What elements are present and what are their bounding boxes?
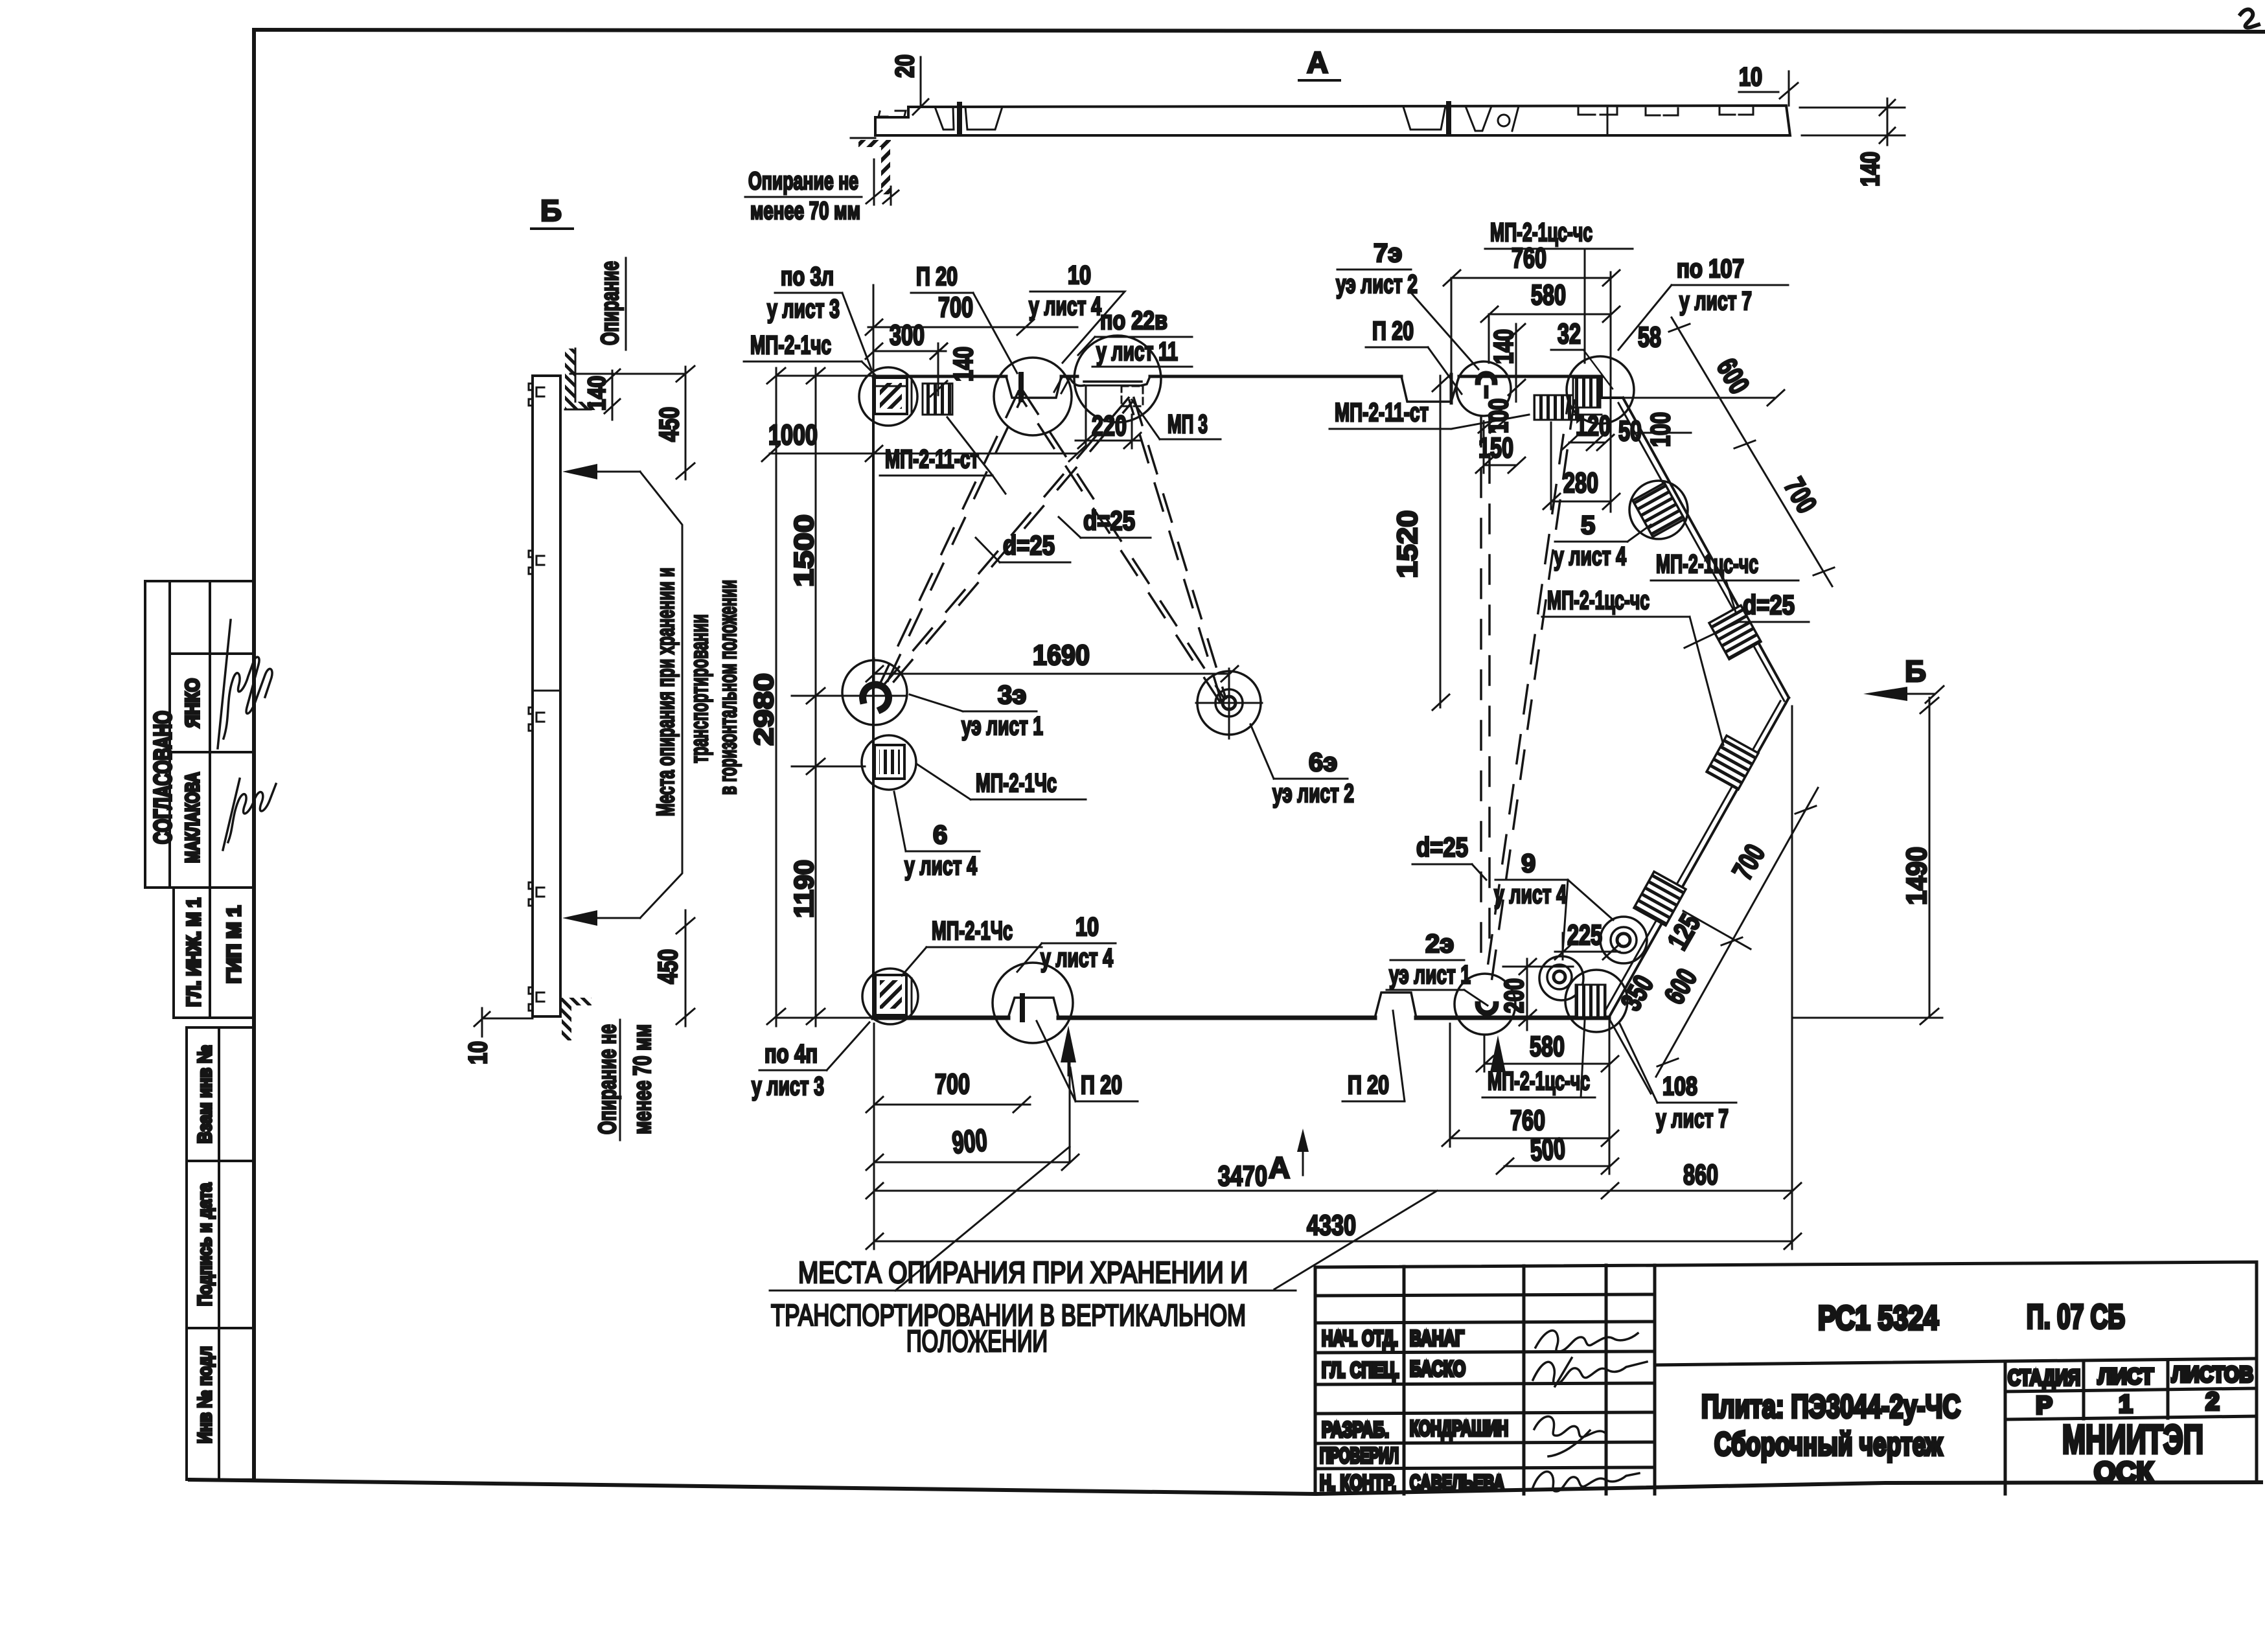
- svg-text:у лист 11: у лист 11: [1096, 338, 1178, 366]
- support line left: [851, 137, 875, 139]
- svg-text:менее 70 мм: менее 70 мм: [750, 198, 860, 225]
- svg-text:450: 450: [654, 407, 684, 442]
- SECTION A: [745, 45, 1905, 225]
- svg-text:100: 100: [1645, 412, 1675, 447]
- svg-text:менее 70 мм: менее 70 мм: [629, 1024, 656, 1134]
- embed on bottom diagonal 2: [1634, 871, 1686, 925]
- svg-text:у лист 3: у лист 3: [767, 295, 840, 323]
- PLAN DASHED: [880, 390, 1574, 982]
- svg-text:1520: 1520: [1392, 511, 1423, 579]
- plate top edge: [873, 375, 1006, 378]
- frame top border: [254, 30, 2265, 32]
- extension lines: [776, 375, 873, 377]
- П20 notch bottom: [1008, 998, 1059, 1018]
- svg-text:200: 200: [1499, 978, 1529, 1013]
- svg-text:РС1 5324: РС1 5324: [1818, 1300, 1938, 1337]
- svg-text:САВЕЛЬЕВА: САВЕЛЬЕВА: [1410, 1471, 1504, 1495]
- svg-text:10: 10: [464, 1041, 492, 1064]
- svg-text:А: А: [1269, 1151, 1290, 1184]
- svg-text:58: 58: [1638, 321, 1661, 353]
- dim 700 bottom: [874, 1104, 1030, 1106]
- dim 100 diag: [1626, 397, 1684, 399]
- dim 150: [1484, 465, 1516, 466]
- frame bottom border: [190, 1480, 2261, 1494]
- PLAN: [842, 336, 1789, 1043]
- signature Савельева: [1533, 1472, 1639, 1491]
- svg-text:1190: 1190: [788, 860, 819, 918]
- TITLEBLOCK: [1315, 1262, 2257, 1495]
- svg-text:П 20: П 20: [1372, 317, 1414, 345]
- corner embed bottom-right: [1576, 985, 1605, 1017]
- svg-text:ПРОВЕРИЛ: ПРОВЕРИЛ: [1320, 1443, 1399, 1467]
- svg-text:220: 220: [1092, 410, 1127, 442]
- svg-text:1690: 1690: [1033, 639, 1090, 671]
- diag dim line 700 600 bottom: [1656, 788, 1818, 1077]
- hole circle: [1498, 115, 1510, 126]
- svg-text:БАСКО: БАСКО: [1410, 1357, 1466, 1381]
- svg-text:1: 1: [2119, 1391, 2132, 1418]
- svg-text:Плита: ПЭ3044-2у-ЧС: Плита: ПЭ3044-2у-ЧС: [1701, 1388, 1960, 1425]
- svg-text:ЛИСТ: ЛИСТ: [2098, 1364, 2154, 1389]
- svg-text:Опирание: Опирание: [597, 261, 624, 345]
- svg-text:П 20: П 20: [1081, 1071, 1122, 1099]
- embed МП-2-1Чс mid-left: [875, 745, 904, 779]
- svg-text:d=25: d=25: [1083, 505, 1135, 536]
- PLAN LABELS: [744, 218, 1809, 1358]
- embed МП-2-11-ст top-left: [923, 384, 952, 415]
- svg-text:140: 140: [1488, 329, 1519, 364]
- edge tabs: [529, 384, 533, 406]
- title block outer border: [1315, 1262, 2257, 1494]
- detail circle 3э: [842, 660, 907, 725]
- П20 notch top-left: [1006, 376, 1061, 398]
- dim 225: [1555, 951, 1620, 953]
- svg-text:4330: 4330: [1307, 1210, 1356, 1241]
- svg-text:3э: 3э: [998, 681, 1026, 709]
- notch П20 left: [935, 107, 954, 130]
- svg-text:2: 2: [2205, 1388, 2219, 1416]
- plate apex: [1786, 698, 1789, 704]
- handwritten sheet number 2: [2240, 10, 2259, 28]
- embed on bottom diagonal 1: [1707, 735, 1758, 789]
- svg-text:МП-2-1чс: МП-2-1чс: [750, 331, 831, 360]
- loop 3э: [863, 685, 889, 709]
- signature Кондрашин: [1534, 1416, 1605, 1437]
- embed marks on top: [1578, 108, 1617, 115]
- frame left border: [252, 30, 256, 1480]
- svg-text:ГЛ. СПЕЦ.: ГЛ. СПЕЦ.: [1322, 1358, 1399, 1382]
- top-left corner embed МП-2-1чс: [875, 378, 907, 414]
- svg-text:Подпись и дата: Подпись и дата: [194, 1183, 216, 1306]
- sling line по22в to 3э: [881, 398, 1129, 688]
- diag dim line 600 700 top: [1672, 317, 1832, 586]
- centerlines 3э: [873, 658, 875, 688]
- approval stamp lower block: [174, 888, 253, 1018]
- svg-text:ЛИСТОВ: ЛИСТОВ: [2172, 1362, 2253, 1387]
- svg-text:А: А: [1307, 45, 1328, 79]
- corner ext lines 107: [1623, 397, 1775, 399]
- svg-text:по 4п: по 4п: [765, 1040, 818, 1068]
- slab joint line: [1607, 106, 1609, 135]
- leader to note: [640, 472, 682, 918]
- lifting loop 2э: [1478, 1004, 1496, 1013]
- svg-text:Н. КОНТР.: Н. КОНТР.: [1320, 1471, 1396, 1495]
- approval stamp table: [145, 581, 253, 888]
- plate right upper diagonal edge: [1623, 398, 1789, 698]
- embed on top diagonal 1: [1633, 483, 1684, 536]
- detail circle 10 bottom: [993, 963, 1073, 1043]
- support hatch horizontal: [858, 140, 891, 147]
- svg-text:6: 6: [933, 821, 947, 849]
- detail circle 2э: [1454, 974, 1515, 1035]
- П20 joint bar: [957, 104, 962, 132]
- svg-text:РАЗРАБ.: РАЗРАБ.: [1322, 1417, 1389, 1441]
- svg-text:108: 108: [1662, 1072, 1697, 1101]
- dim 1520: [1440, 376, 1442, 707]
- dim 125: [1683, 911, 1751, 949]
- svg-text:ЯНКО: ЯНКО: [182, 678, 203, 728]
- SECTION B: [464, 194, 907, 1140]
- svg-text:Инв № подл: Инв № подл: [194, 1346, 216, 1443]
- svg-text:9: 9: [1521, 849, 1535, 878]
- dim 1000: [770, 453, 1077, 455]
- svg-text:140: 140: [1856, 152, 1885, 187]
- svg-text:20: 20: [891, 54, 919, 78]
- svg-text:Опирание не: Опирание не: [594, 1024, 621, 1134]
- svg-text:МЕСТА ОПИРАНИЯ ПРИ ХРАНЕНИ: МЕСТА ОПИРАНИЯ ПРИ ХРАНЕНИИ И: [798, 1256, 1248, 1289]
- ext corner diag: [1609, 1018, 1651, 1094]
- embed on top diagonal 2: [1709, 605, 1761, 659]
- svg-text:у лист 7: у лист 7: [1679, 287, 1752, 315]
- svg-text:у лист 4: у лист 4: [1041, 944, 1114, 972]
- svg-text:Опирание не: Опирание не: [748, 168, 858, 195]
- corner 107 embed: [1573, 378, 1600, 407]
- svg-text:МАКЛАКОВА: МАКЛАКОВА: [182, 772, 203, 863]
- lower stamp column: [187, 1027, 253, 1480]
- svg-text:КОНДРАШИН: КОНДРАШИН: [1410, 1416, 1508, 1440]
- svg-text:МП-2-11-ст: МП-2-11-ст: [885, 445, 979, 474]
- svg-text:транспортировании: транспортировании: [686, 614, 713, 763]
- svg-text:d=25: d=25: [1003, 530, 1055, 560]
- detail circle 9: [1539, 956, 1583, 1000]
- svg-text:СОГЛАСОВАНО: СОГЛАСОВАНО: [150, 711, 177, 844]
- signature table verticals: [1403, 1267, 1406, 1494]
- dim line 1500 1190: [815, 368, 817, 1026]
- svg-text:760: 760: [1510, 1105, 1545, 1136]
- svg-text:3470: 3470: [1218, 1160, 1267, 1192]
- detail circle top-left: [859, 367, 917, 426]
- svg-text:у лист 7: у лист 7: [1656, 1105, 1729, 1133]
- bottom-left corner embed: [875, 975, 906, 1015]
- svg-text:у лист 4: у лист 4: [904, 852, 978, 880]
- note underline: [770, 1290, 1296, 1292]
- dim 300: [873, 350, 946, 352]
- svg-text:580: 580: [1530, 1031, 1565, 1062]
- svg-text:860: 860: [1683, 1159, 1718, 1191]
- sling line top notch to 6э: [1022, 390, 1223, 697]
- svg-text:ВАНАГ: ВАНАГ: [1410, 1326, 1464, 1350]
- ext apex down: [1791, 706, 1793, 1249]
- dim 580 top: [1489, 314, 1611, 315]
- svg-text:d=25: d=25: [1416, 832, 1468, 862]
- detail circle 6: [862, 735, 916, 790]
- dim 450 top: [685, 367, 687, 479]
- svg-text:МП-2-1Чс: МП-2-1Чс: [976, 769, 1057, 797]
- sling line по22в to 6э: [1134, 398, 1226, 698]
- slab section outline: [533, 376, 560, 1016]
- svg-text:МП-2-1цс-чс: МП-2-1цс-чс: [1490, 218, 1592, 247]
- upper ring: [1611, 927, 1637, 953]
- svg-text:МП-2-1цс-чс: МП-2-1цс-чс: [1656, 550, 1758, 579]
- по 22в edge profile: [1069, 376, 1084, 385]
- svg-text:Сборочный чертеж: Сборочный чертеж: [1714, 1426, 1942, 1462]
- svg-text:225: 225: [1567, 919, 1602, 951]
- dim 580 bottom: [1484, 1063, 1609, 1065]
- svg-text:10: 10: [1068, 261, 1091, 290]
- svg-text:2980: 2980: [748, 673, 779, 746]
- support hatch top: [565, 349, 575, 402]
- svg-text:140: 140: [948, 347, 978, 382]
- dim 200: [1526, 959, 1528, 1030]
- svg-text:450: 450: [652, 949, 683, 984]
- sling diagonal right: [1491, 400, 1574, 982]
- svg-text:Б: Б: [540, 194, 562, 227]
- svg-text:ОСК: ОСК: [2094, 1456, 2154, 1488]
- lifting hole marks 7э: [1466, 106, 1491, 131]
- svg-text:ГИП М 1: ГИП М 1: [224, 906, 245, 983]
- svg-text:1500: 1500: [788, 514, 819, 587]
- detail circle 7э: [1456, 361, 1511, 416]
- svg-text:МП-2-1Чс: МП-2-1Чс: [932, 917, 1013, 945]
- svg-text:ПОЛОЖЕНИИ: ПОЛОЖЕНИИ: [906, 1324, 1048, 1358]
- svg-text:МНИИТЭП: МНИИТЭП: [2062, 1417, 2203, 1462]
- detail circle 5: [1629, 481, 1688, 539]
- svg-text:МП-2-1цс-чс: МП-2-1цс-чс: [1547, 586, 1650, 615]
- doc number divider: [1655, 1359, 2257, 1365]
- left recess mark: [879, 111, 888, 117]
- svg-text:6э: 6э: [1309, 748, 1337, 777]
- dim 1490: [1929, 698, 1931, 1018]
- notch П20 right: [1403, 106, 1445, 130]
- svg-text:МП-2-11-ст: МП-2-11-ст: [1335, 398, 1429, 427]
- signature Ванаг: [1535, 1331, 1638, 1351]
- svg-text:П 20: П 20: [1348, 1071, 1389, 1099]
- detail circle по22в: [1074, 336, 1161, 422]
- svg-text:10: 10: [1739, 63, 1762, 91]
- svg-text:по 22в: по 22в: [1100, 306, 1167, 335]
- svg-text:НАЧ. ОТД.: НАЧ. ОТД.: [1322, 1326, 1398, 1350]
- embed МП-2-11-ст top-right: [1534, 395, 1578, 420]
- svg-text:5: 5: [1581, 511, 1595, 540]
- slab profile outline: [875, 106, 1790, 135]
- svg-text:d=25: d=25: [1743, 590, 1795, 620]
- dim 220: [1075, 440, 1142, 442]
- svg-text:300: 300: [890, 319, 925, 351]
- dim 700 top: [868, 327, 1077, 328]
- svg-text:50: 50: [1618, 415, 1642, 447]
- mid ring 9: [1547, 965, 1572, 989]
- STAMPS: [145, 581, 276, 1480]
- transport arrow bottom-left: [1061, 1026, 1076, 1062]
- dim 140 right: [1800, 107, 1905, 109]
- dim 450 bottom: [685, 910, 687, 1026]
- signature table row lines: [1315, 1294, 1655, 1296]
- support hatch vertical: [881, 147, 890, 194]
- sling vertical pair: [1480, 418, 1482, 959]
- detail circle upper ring: [1600, 917, 1647, 963]
- sling line top notch to 3э: [880, 391, 1018, 684]
- svg-text:П. 07 СБ: П. 07 СБ: [2027, 1298, 2125, 1336]
- plate top-right step: [1602, 376, 1623, 398]
- signature Баско: [1533, 1362, 1647, 1384]
- dim 1690: [874, 673, 1229, 675]
- notch bottom-right: [1375, 992, 1416, 1018]
- svg-text:по 3л: по 3л: [781, 262, 834, 291]
- svg-text:у лист 3: у лист 3: [752, 1072, 824, 1101]
- dim 760 bottom: [1450, 1138, 1609, 1140]
- svg-text:1000: 1000: [768, 419, 818, 451]
- dim 10 bottom: [482, 1018, 533, 1020]
- svg-text:760: 760: [1512, 242, 1546, 274]
- svg-text:у лист 4: у лист 4: [1494, 880, 1567, 909]
- transport arrow top: [562, 464, 597, 479]
- detail circle corner: [1565, 970, 1627, 1032]
- signature scribble 1: [224, 657, 272, 739]
- svg-text:120: 120: [1576, 410, 1611, 442]
- ring 6э: [1215, 689, 1243, 717]
- svg-text:уэ лист 2: уэ лист 2: [1272, 779, 1354, 808]
- svg-text:уэ лист 1: уэ лист 1: [1389, 961, 1471, 989]
- dim 2980: [776, 368, 777, 1026]
- ext left edge up: [873, 285, 875, 374]
- П20 notch top-right: [1401, 376, 1459, 402]
- dim 3470 860: [874, 1190, 1792, 1192]
- note leader right: [1274, 1191, 1437, 1289]
- svg-text:у лист 4: у лист 4: [1554, 542, 1627, 571]
- svg-text:580: 580: [1531, 279, 1566, 311]
- embed МП3 dashed: [1121, 386, 1143, 406]
- joint bar: [1018, 374, 1024, 400]
- svg-text:7э: 7э: [1374, 239, 1402, 268]
- svg-text:в горизонтальном положении: в горизонтальном положении: [715, 580, 742, 795]
- svg-text:32: 32: [1558, 318, 1581, 350]
- svg-text:у лист 4: у лист 4: [1029, 292, 1102, 321]
- plate bottom edge: [873, 1016, 1008, 1020]
- dim 500 bottom: [1504, 1165, 1609, 1167]
- plate right lower diagonal edge: [1609, 704, 1786, 1018]
- dim 140 7э: [1515, 324, 1517, 402]
- svg-text:по 107: по 107: [1677, 255, 1744, 283]
- dim 140 top-left: [937, 343, 939, 395]
- inner C marks: [536, 387, 544, 396]
- svg-text:Б: Б: [1905, 654, 1926, 688]
- detail circle 107: [1567, 356, 1634, 424]
- svg-text:700: 700: [935, 1068, 970, 1100]
- dim 760 top: [1451, 277, 1611, 279]
- note leader left: [895, 1147, 1070, 1291]
- plate left edge: [872, 376, 875, 1018]
- detail circle bottom-left: [862, 969, 918, 1024]
- detail circle 10 top: [994, 358, 1072, 435]
- dim 4330: [874, 1241, 1792, 1243]
- detail circle 6э: [1197, 671, 1261, 735]
- support hatch bottom: [562, 998, 592, 1005]
- svg-text:Взам инв №: Взам инв №: [194, 1045, 216, 1143]
- transport arrow bottom: [562, 910, 597, 926]
- svg-text:100: 100: [1483, 398, 1513, 433]
- ext corner down: [1609, 1020, 1611, 1174]
- svg-text:уэ лист 2: уэ лист 2: [1336, 270, 1418, 299]
- stage grid: [2004, 1362, 2007, 1494]
- svg-text:1490: 1490: [1901, 847, 1933, 905]
- dim 120 50: [1569, 442, 1605, 444]
- svg-text:Места опирания при хранении и: Места опирания при хранении и: [652, 568, 680, 816]
- svg-text:500: 500: [1529, 1131, 1566, 1167]
- svg-text:2э: 2э: [1425, 930, 1454, 958]
- svg-text:Р: Р: [2036, 1392, 2052, 1419]
- slab joint line: [533, 690, 560, 692]
- signature scribble 2: [228, 784, 276, 842]
- PLAN DIMS: [762, 242, 1944, 1249]
- svg-text:СТАДИЯ: СТАДИЯ: [2008, 1366, 2080, 1390]
- П20 joint bar right: [1446, 104, 1451, 132]
- transport arrow bottom-right: [1490, 1035, 1506, 1072]
- svg-text:ГЛ. ИНЖ. М 1: ГЛ. ИНЖ. М 1: [183, 898, 205, 1007]
- svg-text:МП 3: МП 3: [1167, 410, 1208, 439]
- svg-text:280: 280: [1563, 467, 1598, 499]
- lifting loop 7э: [1478, 374, 1495, 382]
- dim 280: [1551, 501, 1611, 503]
- svg-text:МП-2-1цс-чс: МП-2-1цс-чс: [1488, 1067, 1590, 1096]
- svg-text:уэ лист 1: уэ лист 1: [961, 712, 1043, 740]
- svg-text:10: 10: [1075, 913, 1099, 941]
- dim 900: [874, 1162, 1070, 1164]
- svg-text:700: 700: [938, 292, 973, 323]
- svg-text:900: 900: [950, 1123, 988, 1161]
- svg-text:П 20: П 20: [916, 262, 958, 291]
